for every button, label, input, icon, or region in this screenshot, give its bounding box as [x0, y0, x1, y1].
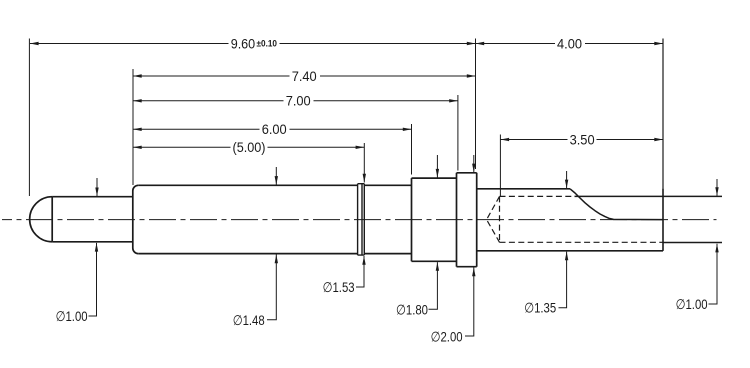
svg-text:∅1.80: ∅1.80	[396, 302, 428, 318]
disc top edge	[457, 172, 477, 174]
extension line disc left	[457, 95, 459, 171]
tube bottom edge	[477, 250, 663, 252]
disc bottom edge	[457, 266, 477, 268]
svg-text:4.00: 4.00	[557, 35, 582, 51]
tube end face	[662, 189, 664, 251]
dia 1.00 left leader	[89, 243, 97, 316]
flange shoulder face	[411, 178, 413, 261]
svg-text:3.50: 3.50	[570, 131, 595, 147]
disc left face	[456, 173, 458, 267]
plunger top edge	[52, 196, 133, 198]
disc right face	[476, 173, 478, 267]
tail pin bottom edge	[663, 242, 722, 244]
svg-text:∅1.00: ∅1.00	[56, 308, 88, 324]
dimension 5.00 line	[133, 146, 231, 148]
svg-text:7.40: 7.40	[292, 68, 317, 84]
centerline	[2, 219, 717, 221]
tube top edge	[477, 188, 570, 190]
dia 1.48 leader	[267, 255, 276, 320]
svg-text:∅1.00: ∅1.00	[676, 296, 708, 312]
svg-text:7.00: 7.00	[286, 93, 311, 109]
dia 1.00 right leader	[709, 244, 718, 304]
extension line flange step	[411, 124, 413, 175]
dimension 3.50 line	[500, 139, 567, 141]
svg-text:6.00: 6.00	[262, 121, 287, 137]
hidden hole top line	[500, 195, 572, 197]
dimension 9.60 line	[30, 43, 229, 45]
dia 1.00 left top arrow	[96, 178, 98, 196]
dia 2.00 top arrow	[473, 155, 475, 172]
plunger dome	[30, 197, 53, 242]
crimp ring band	[358, 184, 365, 255]
barrel bottom edge	[138, 253, 411, 255]
dimension 4.00 line	[476, 43, 556, 45]
extension line left tip	[28, 39, 30, 197]
extension line barrel face	[132, 69, 134, 185]
svg-text:∅2.00: ∅2.00	[431, 328, 463, 344]
dia 1.80 leader	[429, 262, 438, 309]
dia 1.53 leader	[356, 256, 364, 287]
dia 1.00 right top arrow	[716, 179, 718, 196]
svg-text:9.60: 9.60	[231, 35, 256, 51]
svg-text:±0.10: ±0.10	[257, 38, 278, 49]
tail pin top edge	[575, 195, 723, 197]
barrel front face with fillets	[133, 185, 139, 253]
svg-text:∅1.35: ∅1.35	[524, 300, 556, 316]
dia 2.00 leader	[465, 268, 474, 337]
svg-text:∅1.48: ∅1.48	[233, 312, 265, 328]
extension line disc right	[475, 39, 477, 170]
dimension 7.00 line	[133, 100, 284, 102]
extension line hole shoulder	[499, 135, 501, 197]
plunger dome junction line	[51, 197, 53, 242]
tube neck curve	[570, 189, 663, 220]
dia 1.35 leader	[559, 252, 567, 308]
dia 1.80 top arrow	[436, 155, 438, 178]
dia 1.48 top arrow	[275, 167, 277, 185]
dimension 7.40 line	[133, 75, 290, 77]
svg-text:(5.00): (5.00)	[233, 139, 266, 155]
dia 1.35 top arrow	[566, 171, 568, 188]
hidden hole cone	[487, 196, 500, 242]
dimension 5.00 drop arrow to ring	[363, 143, 365, 183]
flange top edge	[412, 177, 457, 179]
barrel top edge	[138, 184, 411, 186]
svg-text:∅1.53: ∅1.53	[323, 279, 355, 295]
plunger bottom edge	[52, 241, 133, 243]
dimension 6.00 line	[133, 128, 260, 130]
extension line tube end	[662, 39, 664, 251]
hidden hole bottom line	[500, 241, 664, 243]
flange bottom edge	[412, 260, 457, 262]
